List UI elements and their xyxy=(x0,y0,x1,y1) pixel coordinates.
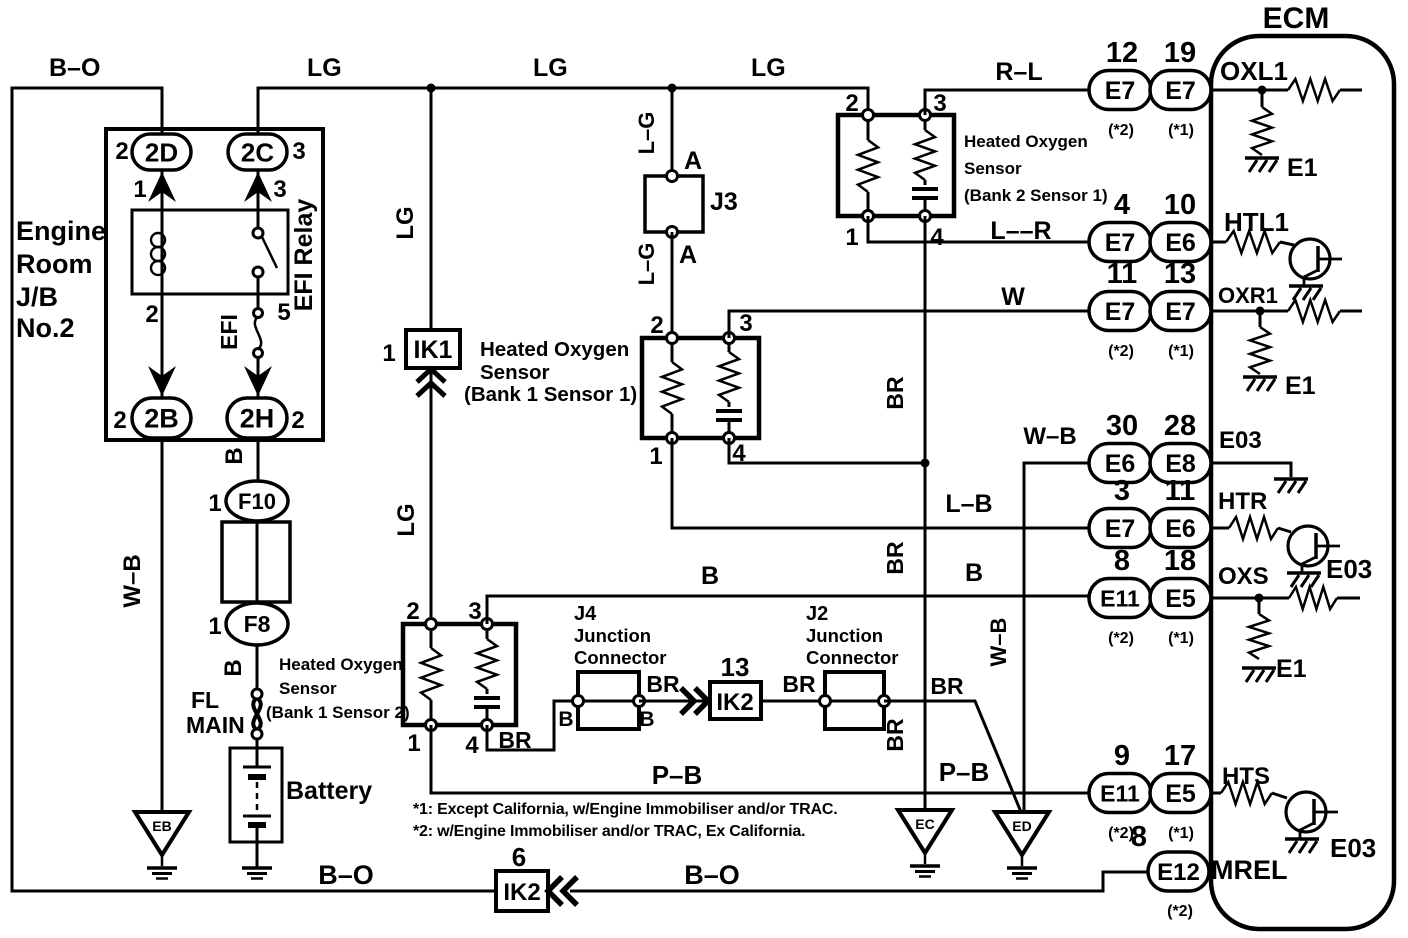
svg-text:L––R: L––R xyxy=(990,217,1051,245)
svg-text:(*2): (*2) xyxy=(1108,122,1134,139)
pins B1S2 xyxy=(426,619,437,630)
sensor connector Bank 1 Sensor 2 box xyxy=(403,624,516,725)
ECM connector row HTS pins xyxy=(1089,774,1151,813)
svg-text:(Bank 2 Sensor 1): (Bank 2 Sensor 1) xyxy=(964,186,1108,205)
transistor HTR driver xyxy=(1288,526,1328,566)
svg-text:E11: E11 xyxy=(1100,780,1140,806)
svg-text:9: 9 xyxy=(1114,740,1130,772)
node junction LG / J3 branch xyxy=(668,84,677,93)
svg-text:11: 11 xyxy=(1165,475,1196,507)
ground EC xyxy=(898,810,952,853)
svg-text:3: 3 xyxy=(273,176,286,203)
wire W-B from ECM E6-30 to ground ED xyxy=(1024,463,1089,812)
wire L-R from B2S1 pin 1 to ECM xyxy=(868,216,1089,242)
relay switch contact xyxy=(262,237,277,268)
svg-text:1: 1 xyxy=(407,730,420,757)
arrow into relay pin 3 from 2C xyxy=(244,172,272,202)
svg-text:1: 1 xyxy=(208,613,221,640)
svg-text:30: 30 xyxy=(1106,410,1138,442)
transistor HTL1 driver xyxy=(1290,239,1330,279)
resistor OXR1 series xyxy=(1288,300,1340,322)
svg-text:B: B xyxy=(965,559,983,587)
svg-text:Sensor: Sensor xyxy=(480,361,550,384)
resistor heater element B1S1 xyxy=(662,362,682,414)
svg-text:2: 2 xyxy=(113,407,126,434)
wire HTR internal xyxy=(1211,528,1291,532)
svg-text:1: 1 xyxy=(133,176,146,203)
svg-text:Sensor: Sensor xyxy=(964,159,1022,178)
svg-text:E11: E11 xyxy=(1100,585,1140,611)
node OXR1 junction xyxy=(1256,307,1265,316)
junction connector J2 box xyxy=(825,672,884,729)
resistor HTR xyxy=(1229,517,1278,539)
capacitor B1S2 xyxy=(474,696,500,700)
svg-text:BR: BR xyxy=(498,727,532,753)
svg-text:BR: BR xyxy=(782,671,816,697)
pins B1S1 xyxy=(667,333,678,344)
svg-text:11: 11 xyxy=(1107,258,1138,290)
svg-text:EFI Relay: EFI Relay xyxy=(290,199,318,312)
svg-text:6: 6 xyxy=(512,842,526,872)
svg-text:E5: E5 xyxy=(1165,585,1196,613)
wire HTS internal xyxy=(1211,793,1287,798)
svg-text:8: 8 xyxy=(1114,545,1130,577)
svg-text:4: 4 xyxy=(930,224,944,251)
connector 2C xyxy=(228,134,287,170)
node junction BR xyxy=(921,459,930,468)
sensor connector Bank 2 Sensor 1 box xyxy=(838,115,954,216)
wire BR from J2 to ground ED xyxy=(884,701,1021,812)
wire vertical through relay switch side x=258 xyxy=(257,169,260,398)
pins B2S1 xyxy=(863,110,874,121)
svg-text:10: 10 xyxy=(1164,189,1196,221)
svg-text:2: 2 xyxy=(650,312,663,339)
svg-text:MREL: MREL xyxy=(1211,855,1288,885)
svg-text:1: 1 xyxy=(382,340,395,367)
svg-text:No.2: No.2 xyxy=(16,313,75,343)
sensor connector Bank 1 Sensor 1 box xyxy=(642,338,759,438)
svg-text:(*1): (*1) xyxy=(1168,630,1194,647)
resistor OXS series xyxy=(1289,587,1337,609)
svg-text:*1: Except California, w/Engin: *1: Except California, w/Engine Immobili… xyxy=(413,801,837,818)
svg-text:2C: 2C xyxy=(241,137,274,167)
svg-text:2: 2 xyxy=(845,90,858,117)
resistor sensor element B1S2 xyxy=(477,639,497,689)
ECM connector row MREL pin E12 xyxy=(1148,852,1209,891)
svg-text:28: 28 xyxy=(1164,410,1196,442)
wire L-G from J3 to Bank 1 Sensor 1 pin 2 xyxy=(671,232,674,340)
svg-text:MAIN: MAIN xyxy=(186,712,245,738)
svg-text:BR: BR xyxy=(882,376,908,410)
svg-text:J2: J2 xyxy=(806,603,828,625)
resistor OXS pull-down to E1 xyxy=(1258,598,1261,614)
svg-text:IK2: IK2 xyxy=(716,689,753,716)
connector 2D xyxy=(132,134,191,170)
svg-text:3: 3 xyxy=(468,598,481,625)
svg-text:F8: F8 xyxy=(244,611,271,637)
relay EFI Relay box xyxy=(132,210,288,294)
capacitor B2S1 xyxy=(912,187,938,191)
svg-text:12: 12 xyxy=(1106,37,1138,69)
wire B from 2H to F10 xyxy=(257,438,260,482)
svg-text:E7: E7 xyxy=(1105,515,1136,543)
svg-text:(*1): (*1) xyxy=(1168,343,1194,360)
svg-text:EC: EC xyxy=(915,816,934,832)
wire W from B1S1 pin 3 to ECM xyxy=(729,311,1089,338)
wire BR from J4 to IK2 xyxy=(639,700,708,703)
svg-text:LG: LG xyxy=(307,54,342,82)
wire P-B from B1S2 pin 1 to ECM xyxy=(431,725,1089,793)
wire BR from B2S1 pin 4 down to ground EC xyxy=(924,216,927,810)
wire from B1S1 pin 4 to BR node xyxy=(729,438,925,463)
ECM connector row HTL1 pins xyxy=(1089,223,1151,262)
node OXS junction xyxy=(1255,594,1264,603)
wire HTL1 internal xyxy=(1211,242,1294,245)
svg-text:BR: BR xyxy=(930,673,964,699)
wire L-G from top junction to J3 xyxy=(671,88,674,176)
svg-text:E1: E1 xyxy=(1287,154,1318,182)
svg-text:FL: FL xyxy=(191,687,219,713)
svg-text:OXR1: OXR1 xyxy=(1218,283,1278,308)
junction connector J3 xyxy=(645,176,703,232)
svg-text:E1: E1 xyxy=(1276,655,1307,683)
svg-text:8: 8 xyxy=(1131,821,1147,853)
wire BR from IK2 to J2 xyxy=(761,700,827,703)
arrows into IK2 pin 6 xyxy=(548,877,562,905)
svg-text:E7: E7 xyxy=(1105,77,1136,105)
svg-text:E8: E8 xyxy=(1165,450,1196,478)
connector 2H xyxy=(227,398,287,438)
svg-text:1: 1 xyxy=(845,224,858,251)
svg-text:HTR: HTR xyxy=(1218,488,1267,515)
arrow into relay pin 1 from 2D xyxy=(148,172,176,202)
capacitor B1S1 xyxy=(716,409,742,413)
svg-text:W–B: W–B xyxy=(119,554,146,607)
svg-text:4: 4 xyxy=(1114,189,1130,221)
resistor HTL1 xyxy=(1226,231,1280,253)
ground E03 internal xyxy=(1274,477,1308,481)
svg-text:BR: BR xyxy=(882,541,908,575)
svg-text:E03: E03 xyxy=(1219,427,1262,454)
svg-text:Heated Oxygen: Heated Oxygen xyxy=(964,132,1088,151)
svg-text:5: 5 xyxy=(277,299,290,326)
svg-text:Battery: Battery xyxy=(286,777,372,805)
svg-text:J/B: J/B xyxy=(16,282,58,312)
resistor OXL1 pull-down to E1 xyxy=(1261,90,1264,107)
svg-text:P–B: P–B xyxy=(652,760,703,790)
svg-text:*2: w/Engine Immobiliser and/o: *2: w/Engine Immobiliser and/or TRAC, Ex… xyxy=(413,823,805,840)
svg-text:L–G: L–G xyxy=(634,243,659,286)
svg-text:2D: 2D xyxy=(145,137,178,167)
ECM connector row OXR1 pins xyxy=(1089,292,1151,331)
svg-text:Room: Room xyxy=(16,249,93,279)
svg-text:3: 3 xyxy=(933,90,946,117)
wire L-B from B1S1 pin 1 to ECM xyxy=(672,438,1089,528)
svg-text:J3: J3 xyxy=(710,188,738,216)
svg-text:L–G: L–G xyxy=(634,112,659,155)
svg-text:E7: E7 xyxy=(1165,298,1196,326)
fuse EFI xyxy=(255,317,261,349)
svg-text:13: 13 xyxy=(721,652,750,682)
relay coil xyxy=(151,233,165,247)
wire OXR1 internal xyxy=(1211,310,1362,313)
connector IK2 pin 13 xyxy=(710,682,761,719)
svg-text:1: 1 xyxy=(649,443,662,470)
resistor heater element B1S2 xyxy=(421,648,441,700)
svg-text:LG: LG xyxy=(533,54,568,82)
svg-text:ECM: ECM xyxy=(1263,2,1330,35)
junction connector J4 box xyxy=(578,672,639,729)
svg-text:EB: EB xyxy=(152,818,171,834)
svg-text:E5: E5 xyxy=(1165,780,1196,808)
svg-text:Junction: Junction xyxy=(574,625,651,646)
wire B from B1S2 pin 3 to ECM xyxy=(487,596,1089,624)
svg-text:13: 13 xyxy=(1164,258,1196,290)
svg-text:(*2): (*2) xyxy=(1108,343,1134,360)
resistor sensor element B1S1 xyxy=(719,352,739,402)
svg-text:W: W xyxy=(1001,283,1025,311)
fusible link FL MAIN xyxy=(253,698,261,730)
svg-text:(*1): (*1) xyxy=(1168,825,1194,842)
ground E1 top xyxy=(1245,156,1279,160)
node OXL1 junction xyxy=(1258,86,1267,95)
wire B from F8 to FL MAIN xyxy=(256,645,259,690)
svg-text:Engine: Engine xyxy=(16,216,106,246)
svg-text:BR: BR xyxy=(646,671,680,697)
svg-text:2: 2 xyxy=(406,598,419,625)
svg-text:2: 2 xyxy=(145,301,158,328)
svg-text:Connector: Connector xyxy=(574,647,667,668)
arrow out of relay to 2B xyxy=(148,366,176,396)
svg-text:(*1): (*1) xyxy=(1168,122,1194,139)
svg-text:R–L: R–L xyxy=(995,58,1042,86)
svg-text:B: B xyxy=(221,447,248,464)
svg-text:B–O: B–O xyxy=(318,860,374,890)
svg-text:B: B xyxy=(220,659,247,676)
arrows into IK2 pin 13 xyxy=(681,688,694,714)
svg-text:W–B: W–B xyxy=(986,618,1011,667)
resistor OXL1 series xyxy=(1288,79,1340,101)
connector 2B xyxy=(132,398,191,438)
svg-text:Connector: Connector xyxy=(806,647,899,668)
svg-text:ED: ED xyxy=(1012,818,1031,834)
svg-text:2: 2 xyxy=(115,138,128,165)
arrow out of relay to 2H xyxy=(244,366,272,396)
battery xyxy=(256,739,259,766)
wire vertical through relay coil side x=162 xyxy=(161,169,164,398)
svg-text:Sensor: Sensor xyxy=(279,679,337,698)
fuse F10 connector xyxy=(226,481,288,521)
svg-text:P–B: P–B xyxy=(939,757,990,787)
svg-text:(*2): (*2) xyxy=(1108,630,1134,647)
svg-text:4: 4 xyxy=(465,732,479,759)
svg-text:Heated Oxygen: Heated Oxygen xyxy=(480,338,629,361)
svg-text:2: 2 xyxy=(291,407,304,434)
svg-text:2B: 2B xyxy=(144,404,179,434)
svg-text:(*2): (*2) xyxy=(1167,903,1193,920)
svg-text:OXL1: OXL1 xyxy=(1220,56,1288,86)
ECM connector row OXS pins xyxy=(1089,579,1151,618)
svg-text:E6: E6 xyxy=(1165,229,1196,257)
resistor heater element B2S1 xyxy=(858,140,878,192)
svg-text:E6: E6 xyxy=(1165,515,1196,543)
wire B-O from IK2 to ECM MREL xyxy=(570,872,1148,891)
svg-text:3: 3 xyxy=(1114,475,1130,507)
svg-text:E7: E7 xyxy=(1105,298,1136,326)
svg-text:E03: E03 xyxy=(1326,554,1372,584)
svg-text:E7: E7 xyxy=(1105,229,1136,257)
svg-text:E1: E1 xyxy=(1285,372,1316,400)
node junction LG / IK1 branch xyxy=(427,84,436,93)
svg-text:EFI: EFI xyxy=(216,314,242,350)
svg-text:18: 18 xyxy=(1164,545,1196,577)
ECM connector row E03 pins xyxy=(1089,444,1151,483)
svg-text:Junction: Junction xyxy=(806,625,883,646)
wire BR from B1S2 pin 4 to J4 xyxy=(487,701,580,750)
ground ED xyxy=(995,812,1049,855)
wire LG from top junction to IK1 xyxy=(430,88,433,330)
svg-text:B–O: B–O xyxy=(684,860,740,890)
wire LG from IK1 to Bank 1 Sensor 2 pin 2 xyxy=(430,368,433,624)
svg-text:2H: 2H xyxy=(240,404,275,434)
transistor HTS driver xyxy=(1286,792,1326,832)
junction block Engine Room J/B No.2 box xyxy=(106,129,323,440)
wire R-L from B2S1 pin 3 to ECM xyxy=(925,90,1089,115)
svg-text:E03: E03 xyxy=(1330,833,1376,863)
ECM connector row HTR pins xyxy=(1089,509,1151,548)
svg-text:B: B xyxy=(701,562,719,590)
svg-text:L–B: L–B xyxy=(945,490,992,518)
connector IK2 pin 6 xyxy=(496,871,548,911)
svg-text:(Bank 1 Sensor 1): (Bank 1 Sensor 1) xyxy=(464,383,637,406)
svg-text:W–B: W–B xyxy=(1023,423,1076,450)
resistor HTS xyxy=(1221,782,1272,804)
svg-text:E7: E7 xyxy=(1165,77,1196,105)
svg-text:OXS: OXS xyxy=(1218,563,1269,590)
svg-text:E12: E12 xyxy=(1157,859,1200,886)
svg-text:(Bank 1 Sensor 2): (Bank 1 Sensor 2) xyxy=(266,703,410,722)
fuse body box xyxy=(222,522,290,602)
ECM box xyxy=(1211,36,1394,929)
svg-text:F10: F10 xyxy=(238,489,276,514)
connector IK1 xyxy=(406,330,460,368)
resistor OXR1 pull-down to E1 xyxy=(1259,311,1262,327)
wire B-O top-left from battery loop to 2D xyxy=(12,88,496,891)
svg-text:A: A xyxy=(679,241,697,269)
svg-text:E6: E6 xyxy=(1105,450,1136,478)
ground E1 bottom xyxy=(1242,666,1276,670)
svg-text:Heated Oxygen: Heated Oxygen xyxy=(279,655,403,674)
wire OXS internal xyxy=(1211,597,1360,600)
svg-text:3: 3 xyxy=(739,310,752,337)
svg-text:B: B xyxy=(639,708,654,731)
fuse F8 connector xyxy=(226,603,288,645)
svg-text:A: A xyxy=(684,147,702,175)
svg-text:IK1: IK1 xyxy=(414,336,453,364)
ECM connector row OXL1 pins xyxy=(1089,71,1151,110)
ground E1 middle xyxy=(1243,375,1277,379)
wire LG from 2C along top to Bank 2 Sensor 1 pin 2 xyxy=(258,88,868,136)
svg-text:17: 17 xyxy=(1164,740,1196,772)
wire E03 to ground xyxy=(1211,463,1291,477)
svg-text:B: B xyxy=(558,708,573,731)
svg-text:1: 1 xyxy=(208,490,221,517)
svg-text:IK2: IK2 xyxy=(503,879,540,906)
wire W-B from 2B to ground EB xyxy=(161,438,164,812)
svg-text:3: 3 xyxy=(292,138,305,165)
arrows below IK1 xyxy=(417,369,445,382)
svg-text:LG: LG xyxy=(393,503,420,536)
svg-text:19: 19 xyxy=(1164,37,1196,69)
wire OXL1 internal xyxy=(1211,89,1362,92)
svg-text:LG: LG xyxy=(751,54,786,82)
ground EB xyxy=(135,812,189,855)
svg-text:J4: J4 xyxy=(574,603,597,625)
ground below battery xyxy=(242,866,272,870)
svg-text:B–O: B–O xyxy=(49,54,100,82)
svg-text:LG: LG xyxy=(392,206,419,239)
resistor sensor element B2S1 xyxy=(915,130,935,180)
